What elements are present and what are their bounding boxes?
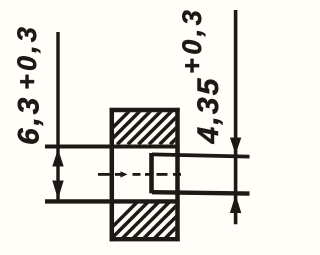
hatching top flange [96,102,223,144]
arrow down at 4,35 upper limit [230,138,241,155]
lower 4,35 extension line / slot bottom edge [152,192,250,193]
part right edge [175,108,180,241]
svg-text:4,35: 4,35 [192,76,225,144]
part top edge [110,108,180,112]
svg-text:+0,3: +0,3 [177,7,207,74]
lower 6,3 extension line / bottom flange inner face [45,199,180,203]
hatching bottom flange [100,195,219,239]
upper 6,3 extension line / top flange inner face [45,145,180,149]
dimension line 4,35 (right, vertical) [234,10,238,224]
arrow up at 6,3 upper limit [52,149,63,167]
part left edge [110,108,115,241]
svg-text:+0,3: +0,3 [12,24,42,90]
part bottom edge [110,237,180,241]
arrow down at 6,3 lower limit [52,181,63,200]
arrow up at 4,35 lower limit [230,195,241,214]
dimension line 6,3 (left, vertical) [56,32,59,200]
svg-text:6,3: 6,3 [13,95,46,145]
centerline dashes [98,173,181,176]
upper 4,35 extension line / slot top edge [152,154,250,156]
slot left edge [149,153,154,193]
centerline small arrowhead [121,171,128,177]
